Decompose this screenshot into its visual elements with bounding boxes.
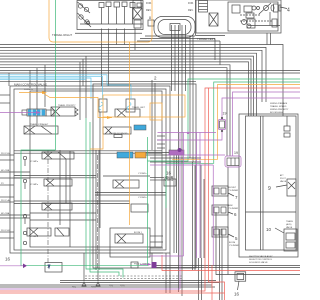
svg-text:PS(B) 1.77MPa: PS(B) 1.77MPa	[134, 264, 149, 266]
svg-text:P.DCC-A4: P.DCC-A4	[1, 199, 11, 202]
svg-text:TRAVEL LEFT: TRAVEL LEFT	[132, 106, 146, 109]
svg-text:14.5MPa: 14.5MPa	[24, 89, 34, 91]
svg-text:4: 4	[287, 8, 290, 14]
svg-text:P(R): P(R)	[120, 285, 125, 287]
svg-text:MAIN CONTROL VALVE: MAIN CONTROL VALVE	[14, 83, 47, 87]
svg-text:CYLINDER: CYLINDER	[229, 245, 240, 247]
svg-text:SELECTOR CONTROL: SELECTOR CONTROL	[249, 259, 273, 261]
svg-text:REV.: REV.	[146, 9, 152, 12]
svg-text:FOR.: FOR.	[146, 2, 152, 5]
svg-text:CT-5MPa: CT-5MPa	[138, 197, 147, 199]
svg-text:19: 19	[234, 151, 238, 155]
svg-text:REV.: REV.	[188, 9, 194, 12]
svg-text:TRAVEL RIGHT: TRAVEL RIGHT	[52, 33, 72, 37]
svg-text:P.DCC-B3: P.DCC-B3	[1, 230, 11, 232]
svg-text:Jb 2B(4R): Jb 2B(4R)	[164, 177, 173, 179]
svg-text:19: 19	[223, 112, 227, 116]
svg-text:SOLENOID VALVE: SOLENOID VALVE	[249, 261, 268, 264]
svg-text:8: 8	[149, 16, 151, 20]
svg-text:P.DCC-B4: P.DCC-B4	[1, 153, 11, 155]
svg-text:PT LINE SOLENOID: PT LINE SOLENOID	[109, 133, 128, 135]
svg-text:SWING PRIORITY: SWING PRIORITY	[270, 109, 289, 111]
svg-text:P(L): P(L)	[109, 285, 113, 287]
svg-text:Jb 185 SE: Jb 185 SE	[164, 180, 174, 182]
svg-text:SHUTTLE VALVE ASSY: SHUTTLE VALVE ASSY	[249, 255, 273, 258]
svg-text:VALVE: VALVE	[280, 180, 287, 183]
svg-text:17.5MPa: 17.5MPa	[30, 161, 39, 163]
svg-text:TRAVEL SPEED: TRAVEL SPEED	[270, 105, 287, 108]
svg-text:PILOT: PILOT	[280, 178, 287, 180]
svg-text:BOOM HIGH: BOOM HIGH	[270, 112, 283, 114]
svg-text:TRAVEL LEFT: TRAVEL LEFT	[197, 37, 215, 41]
svg-text:17.5MPa: 17.5MPa	[30, 184, 39, 186]
svg-text:TRAVEL STRAIGHT: TRAVEL STRAIGHT	[30, 123, 49, 126]
svg-text:10: 10	[266, 227, 272, 232]
svg-text:FOR.: FOR.	[188, 2, 194, 5]
svg-text:SWING P.BRAKE: SWING P.BRAKE	[270, 102, 288, 105]
svg-text:TRAVEL PRIORITY: TRAVEL PRIORITY	[58, 104, 76, 107]
svg-text:16: 16	[5, 257, 11, 262]
svg-text:MC-CMA: MC-CMA	[1, 212, 10, 215]
svg-text:P(L): P(L)	[72, 287, 76, 289]
svg-text:P(R): P(R)	[91, 287, 96, 289]
svg-text:MC-CMB: MC-CMB	[1, 170, 10, 172]
svg-text:16: 16	[234, 292, 240, 297]
svg-text:BOOM 1: BOOM 1	[134, 232, 143, 234]
svg-text:VALVE: VALVE	[286, 226, 293, 229]
svg-text:16: 16	[166, 171, 172, 176]
svg-text:CYLINDER: CYLINDER	[228, 208, 239, 210]
svg-text:BUCKET: BUCKET	[228, 187, 237, 189]
svg-text:TRANS: TRANS	[286, 220, 293, 223]
svg-text:CT-5MPa: CT-5MPa	[138, 173, 147, 175]
svg-text:17.5MPa: 17.5MPa	[30, 236, 39, 238]
svg-text:ARM: ARM	[228, 204, 233, 207]
svg-text:BOOM: BOOM	[229, 242, 235, 244]
svg-text:CYLINDER: CYLINDER	[228, 190, 239, 192]
svg-text:9: 9	[268, 186, 271, 192]
svg-text:(AUX): (AUX)	[286, 223, 292, 226]
